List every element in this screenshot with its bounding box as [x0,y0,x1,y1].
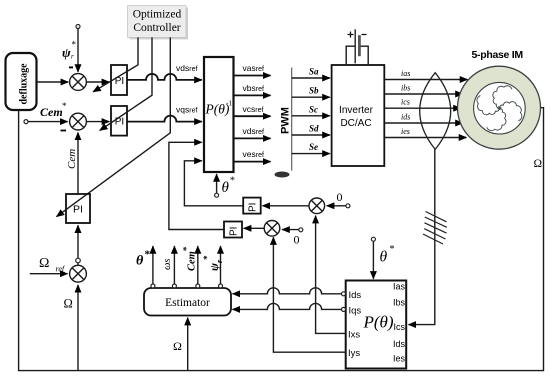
svg-text:*: * [72,40,77,50]
svg-text:θ: θ [380,249,388,266]
svg-text:Ω: Ω [534,158,543,170]
svg-text:ref: ref [56,265,66,274]
svg-text:Iqs: Iqs [349,306,362,317]
svg-text:vbsref: vbsref [243,83,264,93]
svg-text:Ibs: Ibs [393,298,406,308]
svg-text:Ias: Ias [393,282,406,292]
svg-text:*: * [230,176,235,187]
svg-text:PI: PI [115,117,124,128]
svg-text:*: * [145,249,151,261]
svg-text:Sd: Sd [309,124,319,134]
svg-text:vesref: vesref [243,149,264,159]
svg-text:ibs: ibs [401,84,410,93]
svg-text:0: 0 [337,190,343,204]
svg-text:PI: PI [248,203,259,212]
svg-text:Ics: Ics [393,322,405,332]
svg-text:Controller: Controller [133,22,180,34]
svg-text:Cem*: Cem* [182,246,198,271]
svg-text:ψ: ψ [62,45,71,60]
svg-text:Cem: Cem [40,105,63,119]
svg-text:ids: ids [401,113,410,122]
svg-text:Ω: Ω [39,256,49,271]
svg-text:PI: PI [73,204,83,216]
svg-text:Optimized: Optimized [133,9,182,21]
svg-text:Inverter: Inverter [339,105,374,116]
svg-text:*: * [62,101,67,111]
svg-text:r: r [71,53,74,61]
svg-text:Ids: Ids [349,290,362,301]
svg-text:Sb: Sb [309,86,319,96]
svg-text:PWM: PWM [280,107,292,134]
svg-text:vasref: vasref [243,63,264,73]
svg-text:vcsref: vcsref [243,104,264,114]
svg-text:θ: θ [136,254,144,269]
svg-text:Ies: Ies [393,354,406,364]
svg-text:ias: ias [401,69,410,78]
svg-text:PI: PI [229,227,240,236]
svg-text:DC/AC: DC/AC [340,118,371,129]
svg-text:Ω: Ω [64,297,73,311]
svg-text:ies: ies [401,127,410,136]
svg-text:vdsref: vdsref [243,126,264,136]
svg-text:θ: θ [222,180,230,196]
svg-text:Sa: Sa [309,67,319,77]
svg-text:vdsref: vdsref [176,63,197,73]
svg-text:5-phase IM: 5-phase IM [472,49,524,61]
svg-text:0: 0 [294,233,300,247]
svg-text:Ixs: Ixs [348,330,360,341]
svg-text:ωs: ωs [162,259,173,271]
svg-text:vqsref: vqsref [176,105,197,115]
svg-text:ics: ics [401,98,410,107]
svg-text:Ω: Ω [173,339,182,353]
svg-text:*: * [390,244,395,255]
svg-text:Estimator: Estimator [165,297,210,309]
svg-text:Se: Se [309,142,318,152]
svg-text:defluxage: defluxage [19,63,30,105]
svg-text:Ids: Ids [393,339,406,349]
svg-text:Iys: Iys [348,348,360,359]
svg-text:Sc: Sc [309,104,318,114]
svg-text:-1: -1 [226,99,232,108]
svg-text:P(θ): P(θ) [363,313,394,332]
svg-text:Cem: Cem [66,149,78,169]
